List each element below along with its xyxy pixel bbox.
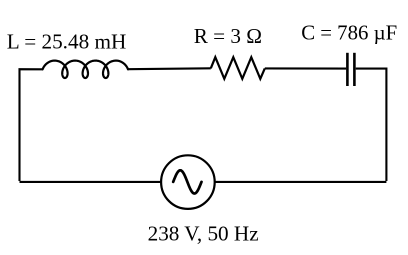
AC source sine wave symbol xyxy=(173,170,201,193)
capacitor C right plate xyxy=(353,53,356,86)
wire: resistor to capacitor xyxy=(265,67,346,69)
svg-text:C = 786 µF: C = 786 µF xyxy=(301,22,397,45)
inductor L = 25.48 mH (coil, 4 humps 3 loops) xyxy=(43,61,128,78)
resistor R = 3 ohm (zigzag) xyxy=(211,57,265,79)
capacitor C left plate xyxy=(346,53,349,86)
svg-text:L = 25.48 mH: L = 25.48 mH xyxy=(7,29,126,53)
AC source circle xyxy=(161,155,215,209)
wire: capacitor to top-right corner and right vertical xyxy=(356,69,387,181)
svg-text:238 V, 50 Hz: 238 V, 50 Hz xyxy=(148,222,259,246)
wire: inductor to resistor xyxy=(128,67,211,70)
wire: bottom left segment xyxy=(20,181,161,183)
wire: bottom right segment xyxy=(215,181,386,183)
svg-text:R = 3 Ω: R = 3 Ω xyxy=(194,24,262,48)
wire: left vertical and top-left segment to inductor xyxy=(20,69,43,181)
